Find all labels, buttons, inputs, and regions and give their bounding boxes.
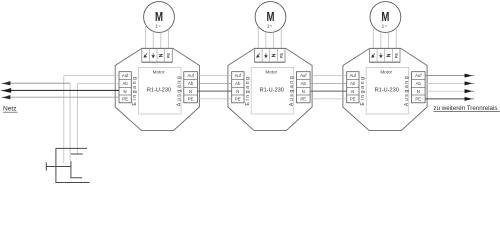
wire U3 Ausgang out row 3 — [425, 90, 465, 92]
svg-text:PE: PE — [394, 53, 399, 59]
arrow PE Netz — [2, 95, 11, 99]
wire U2 Ausgang to U3 Eingang row 4 — [310, 98, 346, 100]
wire U3 Ausgang out row 2 — [425, 82, 465, 84]
svg-text:Auf: Auf — [350, 73, 357, 78]
wire U3 Ausgang out row 4 — [425, 98, 465, 100]
switch S1 pole — [71, 161, 82, 178]
svg-text:Ausgang: Ausgang — [289, 75, 295, 106]
Trennrelais U1 octagon housing — [115, 48, 199, 130]
wire Auf vertical to switch — [63, 76, 65, 163]
svg-text:1~: 1~ — [382, 24, 388, 30]
wire motor M1 lead 1 — [145, 25, 147, 49]
svg-text:N: N — [236, 89, 239, 94]
svg-text:Auf: Auf — [122, 73, 129, 78]
wire motor M2 lead 2 — [265, 32, 267, 49]
label area U1 — [139, 67, 182, 114]
wire U1 Ausgang to U2 Eingang row 4 — [197, 98, 231, 100]
svg-text:M: M — [155, 11, 163, 25]
svg-text:Ausgang: Ausgang — [404, 75, 410, 106]
svg-text:N: N — [417, 89, 420, 94]
svg-text:N: N — [302, 89, 305, 94]
svg-text:N: N — [351, 89, 354, 94]
svg-text:PE: PE — [279, 53, 284, 59]
arrow out row 1 — [465, 74, 474, 77]
label Netz — [3, 106, 18, 113]
svg-text:PE: PE — [415, 97, 421, 102]
svg-text:Auf: Auf — [235, 73, 242, 78]
svg-text:N: N — [189, 89, 192, 94]
arrow out row 2 — [465, 82, 474, 85]
svg-text:Auf: Auf — [300, 73, 307, 78]
terminal block U1 Ausgang (Auf Ab N PE) — [184, 72, 198, 103]
svg-text:Ab: Ab — [188, 81, 194, 86]
svg-text:Eingang: Eingang — [132, 76, 138, 106]
arrow out row 4 — [465, 97, 474, 100]
wire U1 Ausgang to U2 Eingang row 2 — [197, 82, 231, 84]
motor M1 — [144, 2, 175, 33]
wire motor M3 lead 1 — [372, 27, 374, 49]
switch S1 upper contact — [71, 153, 83, 155]
svg-text:Motor: Motor — [380, 69, 392, 74]
svg-text:1~: 1~ — [155, 24, 161, 30]
wire U2 Ausgang to U3 Eingang row 3 — [310, 90, 346, 92]
svg-text:M: M — [266, 11, 274, 25]
switch S1 actuator — [46, 162, 71, 170]
svg-text:R1-U-230: R1-U-230 — [375, 88, 399, 94]
terminal block U2 motor terminals — [255, 49, 286, 63]
wire L Netz phase — [4, 82, 71, 84]
svg-text:Netz: Netz — [3, 106, 17, 113]
svg-text:PE: PE — [188, 97, 194, 102]
svg-text:Ab: Ab — [416, 81, 422, 86]
svg-text:N: N — [124, 89, 127, 94]
terminal block U3 Ausgang (Auf Ab N PE) — [412, 72, 426, 103]
svg-text:PE: PE — [122, 97, 128, 102]
svg-text:Motor: Motor — [153, 69, 165, 74]
wire U2 Ausgang to U3 Eingang row 2 — [310, 82, 346, 84]
Trennrelais U2 octagon housing — [228, 48, 312, 130]
wire N Netz neutral — [4, 89, 120, 91]
label area U2 — [251, 67, 294, 114]
wire U3 Ausgang out row 1 — [425, 75, 465, 77]
label zu weiteren Trennrelais — [434, 105, 500, 112]
wire motor M2 lead 3 — [273, 32, 275, 49]
wire motor M1 lead 3 — [160, 32, 162, 48]
svg-text:Ab: Ab — [301, 81, 307, 86]
svg-text:Ausgang: Ausgang — [176, 75, 182, 106]
svg-text:PE: PE — [300, 97, 306, 102]
svg-text:PE: PE — [350, 97, 356, 102]
svg-text:Ab: Ab — [122, 81, 128, 86]
svg-text:PE: PE — [235, 97, 241, 102]
svg-text:M: M — [381, 11, 389, 25]
wire motor M1 lead 4 — [168, 29, 170, 48]
svg-text:Eingang: Eingang — [245, 76, 251, 106]
label area U3 — [366, 67, 409, 114]
arrow N Netz — [1, 88, 11, 92]
arrow L Netz — [2, 81, 11, 85]
terminal block U2 Eingang (Auf Ab N PE) — [232, 72, 244, 103]
terminal block U3 Eingang (Auf Ab N PE) — [347, 72, 359, 103]
wire Auf from switch to U1 — [64, 75, 119, 77]
svg-text:Auf: Auf — [187, 73, 194, 78]
svg-text:Motor: Motor — [265, 69, 277, 74]
switch S1 frame — [56, 148, 90, 182]
terminal block U1 motor terminals — [142, 49, 173, 63]
svg-text:Ab: Ab — [350, 81, 356, 86]
wire L vertical to switch — [69, 83, 71, 161]
wire motor M2 lead 4 — [280, 28, 282, 48]
motor M3 — [370, 2, 401, 33]
svg-text:PE: PE — [166, 53, 171, 59]
wire motor M3 lead 3 — [388, 32, 390, 49]
svg-text:R1-U-230: R1-U-230 — [260, 88, 284, 94]
wire U1 Ausgang to U2 Eingang row 1 — [197, 75, 231, 77]
terminal block U2 Ausgang (Auf Ab N PE) — [297, 72, 311, 103]
terminal block U3 motor terminals — [370, 49, 401, 63]
svg-text:1~: 1~ — [267, 24, 273, 30]
wire U2 Ausgang to U3 Eingang row 1 — [310, 75, 346, 77]
Trennrelais U3 octagon housing — [343, 48, 427, 130]
svg-text:Ab: Ab — [235, 81, 241, 86]
wire U1 Ausgang to U2 Eingang row 3 — [197, 90, 231, 92]
wire Ab vertical to switch — [76, 84, 78, 154]
svg-text:Auf: Auf — [415, 73, 422, 78]
svg-text:Eingang: Eingang — [360, 76, 366, 106]
wire motor M3 lead 2 — [380, 32, 382, 49]
wire motor M3 lead 4 — [395, 28, 397, 49]
wire motor M1 lead 2 — [152, 31, 154, 48]
arrow out row 3 — [465, 89, 474, 92]
wire motor M2 lead 1 — [257, 26, 259, 48]
wire Ab from switch to U1 — [77, 83, 119, 85]
svg-text:zu weiteren Trennrelais: zu weiteren Trennrelais — [434, 105, 498, 112]
terminal block U1 Eingang (Auf Ab N PE) — [119, 72, 131, 103]
svg-text:R1-U-230: R1-U-230 — [147, 88, 171, 94]
motor M2 — [255, 2, 286, 33]
wire PE Netz earth — [4, 96, 120, 98]
